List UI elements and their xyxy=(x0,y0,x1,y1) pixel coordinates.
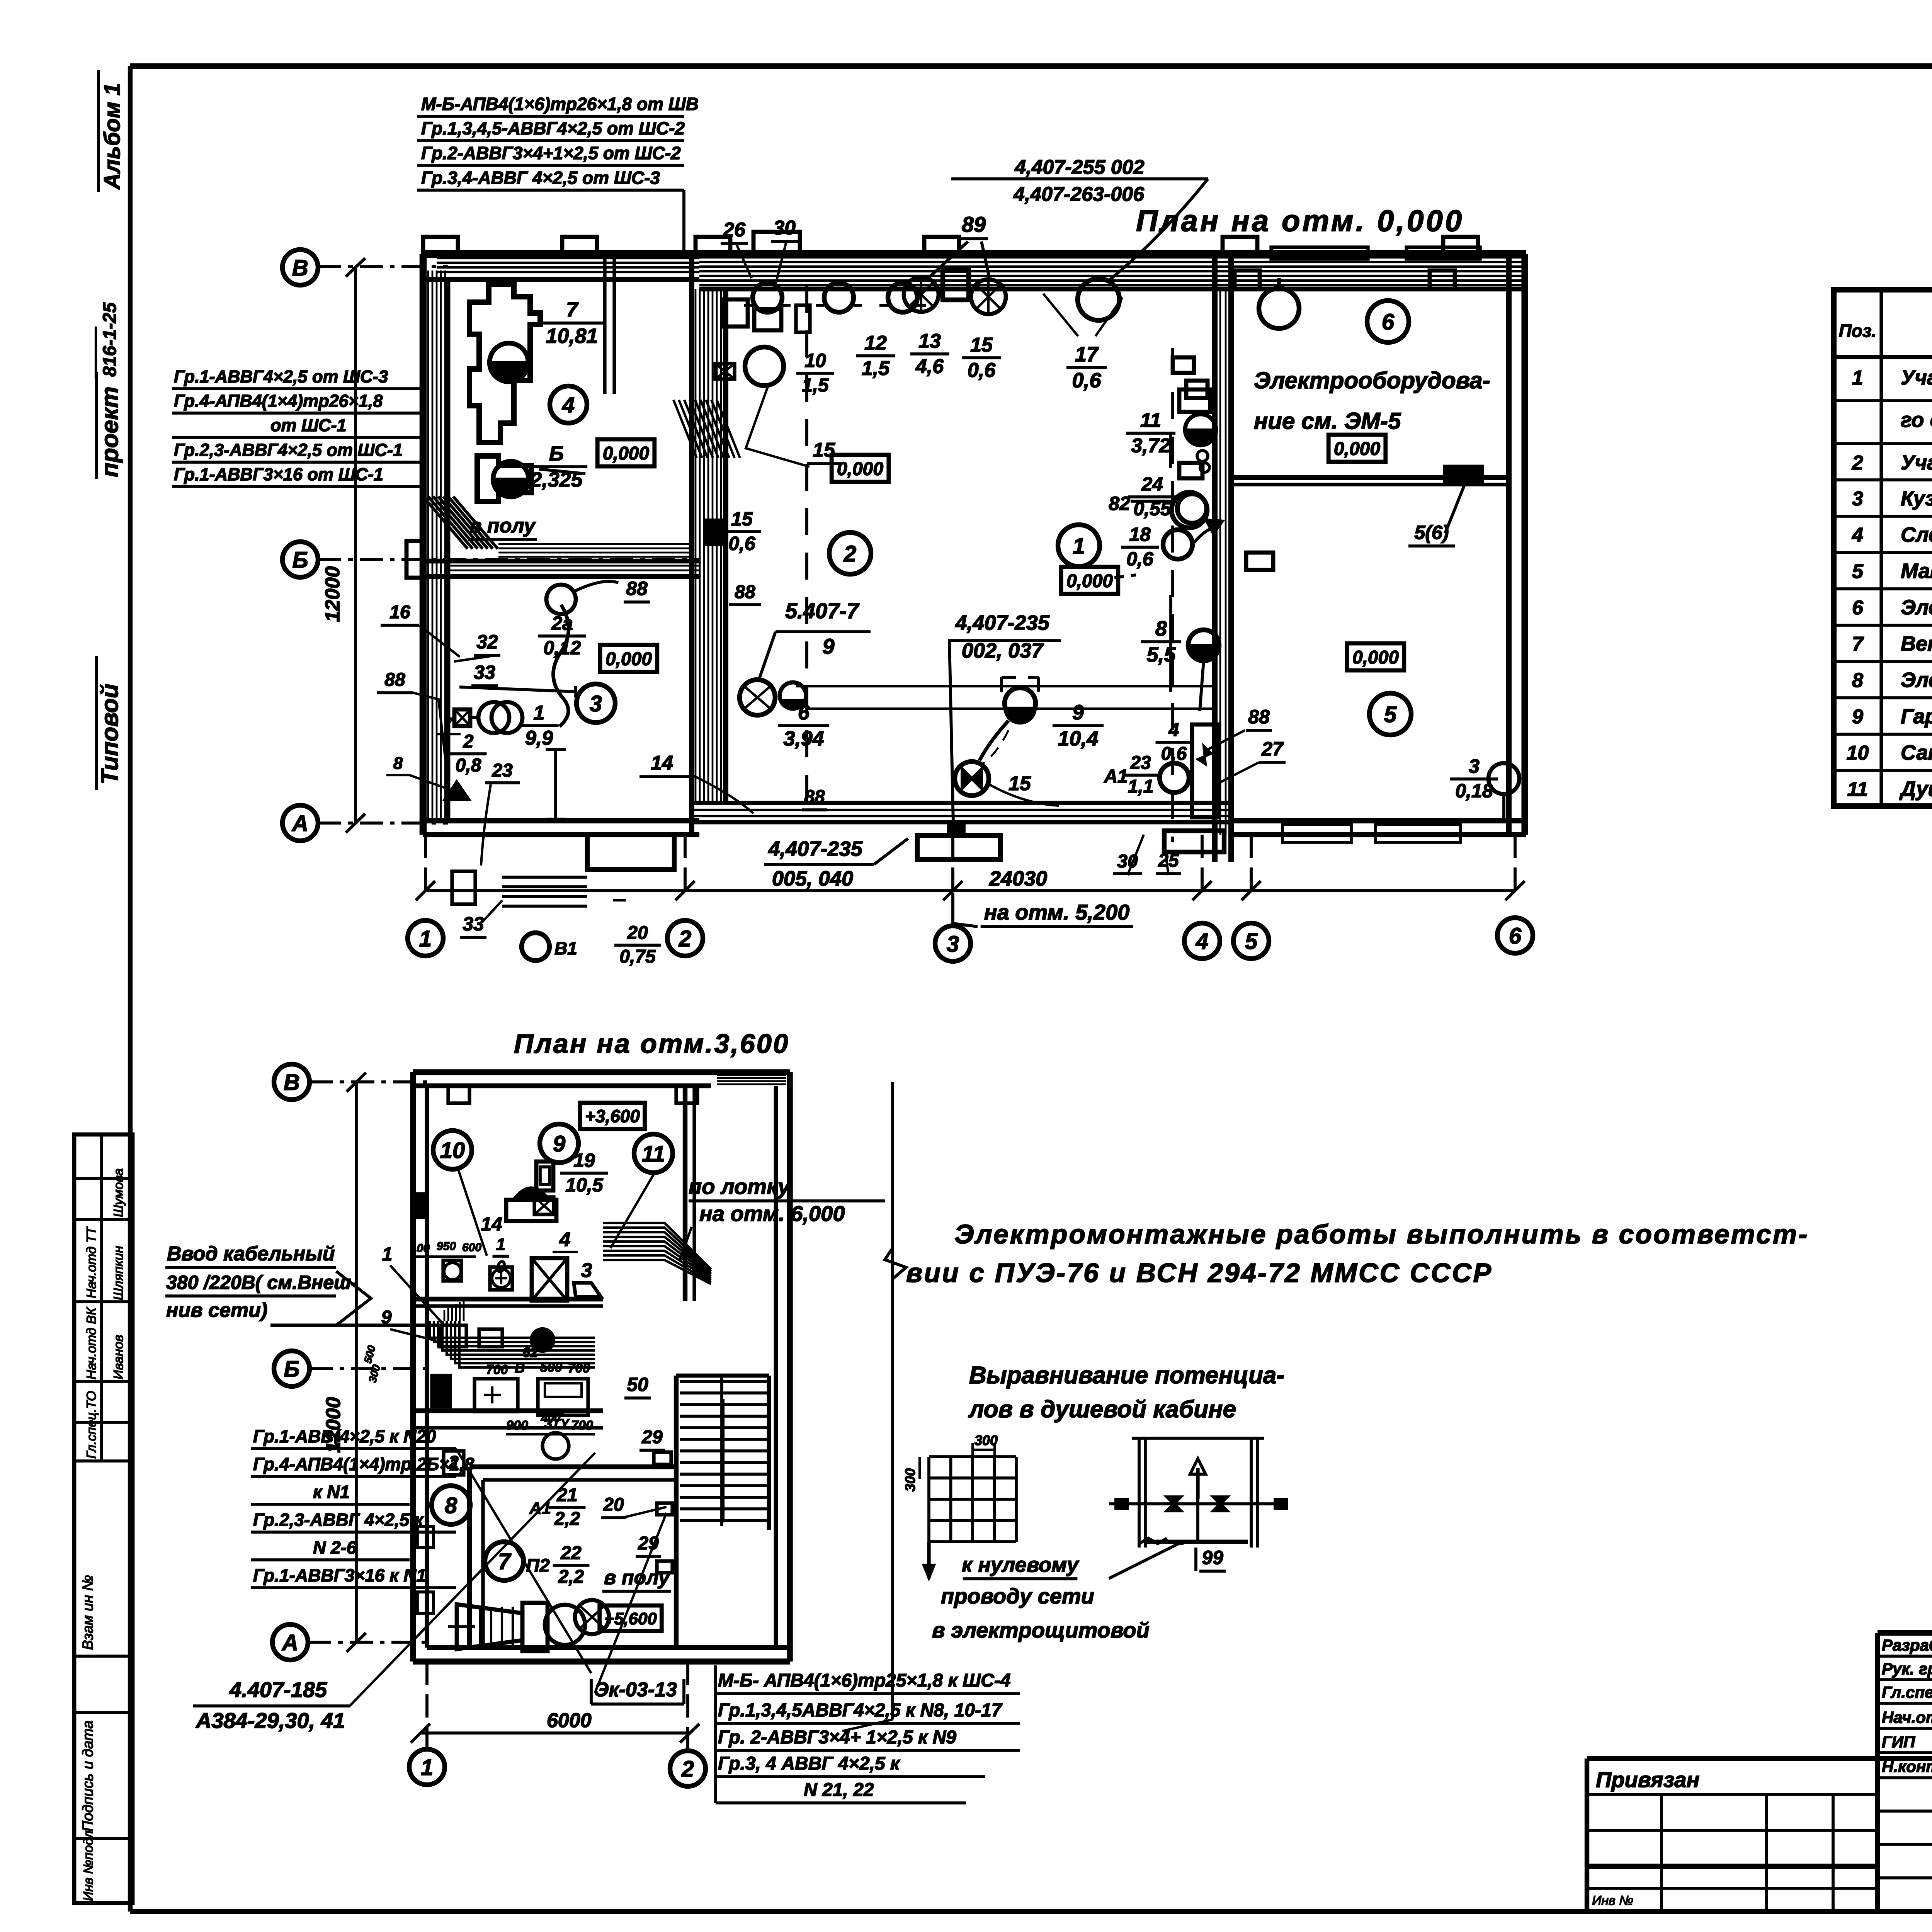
elevation box room 6 xyxy=(1328,435,1386,462)
svg-text:500: 500 xyxy=(362,1344,378,1365)
svg-text:10: 10 xyxy=(804,350,826,371)
svg-text:7: 7 xyxy=(566,298,579,321)
svg-text:3: 3 xyxy=(590,691,602,716)
svg-text:3: 3 xyxy=(947,932,959,957)
left wall pilaster at Б xyxy=(406,541,423,578)
svg-text:6: 6 xyxy=(1852,597,1864,619)
svg-text:18: 18 xyxy=(1129,524,1151,545)
svg-text:62: 62 xyxy=(522,1344,538,1360)
bottom wall main plan xyxy=(423,818,699,823)
svg-text:24: 24 xyxy=(1141,473,1163,495)
elevation +5,600 xyxy=(600,1605,662,1631)
svg-text:ГИП: ГИП xyxy=(1882,1733,1915,1751)
partition wall rooms 4/3 xyxy=(423,559,699,563)
mesh ground lead arrow xyxy=(927,1542,930,1578)
svg-text:1: 1 xyxy=(419,926,432,951)
room number 4 xyxy=(550,386,587,423)
svg-text:20: 20 xyxy=(603,1495,624,1515)
svg-text:0,000: 0,000 xyxy=(603,443,649,464)
plan2 room circles xyxy=(433,1131,472,1169)
svg-text:Привязан: Привязан xyxy=(1596,1767,1699,1792)
axis circle 4 xyxy=(1184,923,1220,959)
plan2 wall pilasters xyxy=(448,1086,469,1103)
svg-text:4: 4 xyxy=(1168,720,1179,740)
svg-text:8: 8 xyxy=(1155,617,1167,640)
svg-text:N 21, 22: N 21, 22 xyxy=(804,1780,874,1800)
svg-text:6: 6 xyxy=(1509,923,1522,949)
small rects on wall xyxy=(1235,270,1260,289)
svg-text:0,000: 0,000 xyxy=(605,649,652,669)
svg-text:29: 29 xyxy=(641,1427,663,1447)
bottom center: black semicircle fixture xyxy=(955,762,989,796)
column fixtures axis 4/5 xyxy=(1173,357,1194,373)
svg-text:Ввод кабельный: Ввод кабельный xyxy=(167,1243,335,1265)
axis circle 6 xyxy=(1497,918,1533,953)
room number 3 xyxy=(577,684,615,723)
elevation box room 1 xyxy=(1061,567,1118,594)
svg-text:В1: В1 xyxy=(554,938,577,958)
svg-text:15: 15 xyxy=(970,334,993,356)
svg-text:Гр.2,3-АВВГ 4×2,5 к: Гр.2,3-АВВГ 4×2,5 к xyxy=(253,1510,424,1530)
svg-text:4: 4 xyxy=(559,1228,571,1251)
svg-text:Выравнивание потенциа-: Выравнивание потенциа- xyxy=(969,1362,1284,1389)
equalization mesh grid xyxy=(927,1457,930,1542)
svg-text:В: В xyxy=(515,1360,525,1376)
plan2 stair well xyxy=(767,1376,771,1530)
svg-text:17: 17 xyxy=(1075,343,1099,366)
svg-text:27: 27 xyxy=(1261,738,1284,760)
svg-text:на отм. 5,200: на отм. 5,200 xyxy=(984,900,1129,924)
main plan: axis circle А xyxy=(282,805,318,841)
leader from spec block to plan2 xyxy=(456,1449,591,1673)
svg-text:2: 2 xyxy=(679,926,691,951)
room number 1 xyxy=(1058,525,1100,566)
svg-text:Поз.: Поз. xyxy=(1839,321,1876,341)
svg-text:Инв №: Инв № xyxy=(1592,1893,1633,1908)
svg-text:22: 22 xyxy=(560,1543,582,1563)
svg-text:3,72: 3,72 xyxy=(1131,434,1170,457)
partition in room 4 xyxy=(603,254,606,394)
svg-text:Гр.4-АПВ4(1×4)тр26×1,8: Гр.4-АПВ4(1×4)тр26×1,8 xyxy=(174,391,383,411)
cable tray line right of plan2 xyxy=(891,1082,894,1719)
room number 2 xyxy=(829,532,871,574)
svg-text:1: 1 xyxy=(1073,534,1085,559)
left wall door hatch (cable riser) xyxy=(423,497,468,549)
svg-text:Разраб: Разраб xyxy=(1882,1636,1932,1654)
cabin bottom strap xyxy=(1145,1540,1248,1544)
svg-text:М-Б-АПВ4(1×6)тр26×1,8 от ШВ: М-Б-АПВ4(1×6)тр26×1,8 от ШВ xyxy=(421,94,699,114)
svg-text:0,000: 0,000 xyxy=(1066,571,1113,591)
svg-text:14: 14 xyxy=(651,752,673,774)
svg-text:Гр.2,3-АВВГ4×2,5 от ШС-1: Гр.2,3-АВВГ4×2,5 от ШС-1 xyxy=(174,440,403,460)
svg-text:0,6: 0,6 xyxy=(728,533,756,554)
leader to lamp xyxy=(1108,179,1208,281)
svg-text:002, 037: 002, 037 xyxy=(962,639,1044,662)
svg-text:го обслуживания тракторов: го обслуживания тракторов xyxy=(1901,408,1932,432)
svg-text:6: 6 xyxy=(1382,310,1395,335)
svg-text:Шумова: Шумова xyxy=(111,1168,126,1217)
svg-text:9: 9 xyxy=(822,634,834,658)
plan2 fan unit xyxy=(457,1604,522,1649)
svg-text:7: 7 xyxy=(1852,633,1864,655)
svg-text:50: 50 xyxy=(627,1374,648,1395)
lamps mid hall with long wires xyxy=(740,680,775,715)
svg-text:82: 82 xyxy=(1109,493,1130,514)
svg-text:Участок текущего ремонта сельх: Участок текущего ремонта сельхозмашин xyxy=(1901,451,1932,474)
elevation box room 3 xyxy=(600,645,657,672)
svg-text:4,6: 4,6 xyxy=(915,355,944,378)
svg-text:2,2: 2,2 xyxy=(558,1567,584,1587)
svg-text:88: 88 xyxy=(735,582,755,602)
svg-text:Гл.спек: Гл.спек xyxy=(1882,1683,1932,1701)
svg-text:3: 3 xyxy=(1469,755,1480,777)
svg-text:1,5: 1,5 xyxy=(802,374,829,396)
svg-text:10: 10 xyxy=(1847,742,1869,764)
svg-text:Б: Б xyxy=(284,1357,299,1382)
svg-text:0,6: 0,6 xyxy=(1126,548,1154,570)
svg-text:10,81: 10,81 xyxy=(546,324,598,347)
axis В dash-dot line xyxy=(318,265,448,268)
svg-text:19: 19 xyxy=(573,1150,595,1171)
svg-text:100: 100 xyxy=(410,1242,430,1255)
svg-text:+3,600: +3,600 xyxy=(585,1106,640,1126)
svg-text:к нулевому: к нулевому xyxy=(962,1553,1080,1577)
svg-text:0,000: 0,000 xyxy=(1334,439,1380,459)
svg-text:900: 900 xyxy=(506,1418,528,1433)
explication table grid xyxy=(1834,290,1932,806)
porches below bottom wall xyxy=(587,835,674,869)
svg-text:4: 4 xyxy=(562,393,575,418)
svg-text:380 /220В( см.Внеш-: 380 /220В( см.Внеш- xyxy=(166,1272,357,1293)
bottom dimension line xyxy=(425,889,1515,892)
svg-text:А: А xyxy=(291,811,308,836)
svg-text:8: 8 xyxy=(1852,669,1863,692)
svg-text:20: 20 xyxy=(627,923,648,943)
lamp circles along top wall xyxy=(753,283,782,312)
plan2 washbasin xyxy=(443,1260,461,1281)
svg-text:1: 1 xyxy=(1852,367,1863,389)
svg-text:Гр.1,3,4,5-АВВГ4×2,5 от ШС-2: Гр.1,3,4,5-АВВГ4×2,5 от ШС-2 xyxy=(421,118,685,138)
title block signature table xyxy=(1878,1630,1932,1636)
svg-text:5: 5 xyxy=(1852,560,1864,583)
svg-text:5.407-7: 5.407-7 xyxy=(785,599,860,623)
svg-text:Нач.от.: Нач.от. xyxy=(1882,1708,1932,1726)
svg-text:+5,600: +5,600 xyxy=(604,1609,657,1628)
heater box room 6 xyxy=(1445,467,1482,482)
svg-text:0,6: 0,6 xyxy=(1072,369,1101,392)
svg-text:Гр.1-АВВГ3×16 от ШС-1: Гр.1-АВВГ3×16 от ШС-1 xyxy=(174,464,383,484)
svg-text:9: 9 xyxy=(553,1131,565,1156)
svg-text:15: 15 xyxy=(731,508,753,530)
main plan: axis circle В xyxy=(282,250,318,285)
svg-text:N 2-6: N 2-6 xyxy=(313,1537,357,1558)
B1 20/0,75 leader xyxy=(613,899,626,901)
svg-text:А: А xyxy=(281,1630,298,1655)
svg-text:88: 88 xyxy=(626,578,648,599)
svg-text:88: 88 xyxy=(804,787,825,807)
svg-text:4,407-235: 4,407-235 xyxy=(955,611,1049,634)
plan2 black blob fixtures xyxy=(531,1328,554,1352)
svg-text:в электрощитовой: в электрощитовой xyxy=(932,1618,1150,1642)
axis circle 3 xyxy=(935,926,971,961)
svg-text:проект: проект xyxy=(97,386,123,477)
svg-text:на отм. 6,000: на отм. 6,000 xyxy=(699,1201,845,1226)
svg-text:300: 300 xyxy=(902,1468,918,1492)
svg-text:3: 3 xyxy=(1852,488,1863,510)
svg-text:950: 950 xyxy=(437,1240,456,1253)
svg-text:2: 2 xyxy=(463,731,474,752)
svg-text:4.407-185: 4.407-185 xyxy=(229,1677,327,1702)
svg-text:9,9: 9,9 xyxy=(525,727,553,749)
svg-text:1: 1 xyxy=(382,1244,393,1265)
svg-text:вии с ПУЭ-76 и ВСН 294-72: вии с ПУЭ-76 и ВСН 294-72 ММСС СССР xyxy=(906,1258,1493,1288)
svg-text:Электродная котельная: Электродная котельная xyxy=(1901,596,1932,619)
svg-text:лов в душевой кабине: лов в душевой кабине xyxy=(968,1396,1236,1423)
svg-text:9: 9 xyxy=(1072,701,1084,724)
svg-text:11: 11 xyxy=(1140,409,1161,432)
svg-text:13: 13 xyxy=(918,330,941,352)
svg-text:Рук. гр.: Рук. гр. xyxy=(1882,1660,1932,1678)
svg-text:к N1: к N1 xyxy=(313,1482,350,1502)
plan2 bottom-left small marks xyxy=(417,1526,434,1548)
svg-text:М-Б- АПВ4(1×6)тр25×1,8 к ШС-4: М-Б- АПВ4(1×6)тр25×1,8 к ШС-4 xyxy=(718,1670,1011,1691)
svg-text:0,000: 0,000 xyxy=(837,459,883,479)
svg-text:10: 10 xyxy=(440,1138,465,1163)
top wall pilasters xyxy=(423,237,458,254)
bottom wall window room 5 xyxy=(1282,825,1351,842)
partition wall rooms 6/5 xyxy=(1231,475,1509,480)
svg-text:23: 23 xyxy=(492,760,513,781)
plan2 boxes with + row xyxy=(474,1379,518,1412)
svg-text:1: 1 xyxy=(496,1235,505,1254)
machine tool room 4 xyxy=(469,284,540,442)
svg-text:Электрооборудова-: Электрооборудова- xyxy=(1254,367,1490,393)
plan2 motor + xyxy=(490,1267,512,1290)
plan2 dense cable knot room 8 xyxy=(430,1321,595,1338)
cabin up arrow xyxy=(1196,1468,1199,1499)
svg-text:от ШС-1: от ШС-1 xyxy=(270,415,347,435)
svg-text:5(6): 5(6) xyxy=(1415,522,1449,543)
svg-text:Эк-03-13: Эк-03-13 xyxy=(594,1679,677,1701)
svg-text:24030: 24030 xyxy=(989,867,1047,890)
elevation box room 4 xyxy=(597,439,655,466)
room number 6 xyxy=(1367,301,1409,342)
svg-text:Гл.спец.ТО: Гл.спец.ТО xyxy=(84,1391,99,1459)
svg-text:Гр.1-АВВГ3×16 к N1: Гр.1-АВВГ3×16 к N1 xyxy=(253,1565,426,1585)
plan2 axis circle 1 xyxy=(409,1749,445,1785)
svg-text:11: 11 xyxy=(642,1141,665,1167)
svg-text:4: 4 xyxy=(1196,929,1208,954)
shower cabin sketch xyxy=(1132,1437,1264,1440)
leader from spec block to plan wall xyxy=(682,190,685,254)
svg-text:1,1: 1,1 xyxy=(1128,777,1154,797)
svg-text:33: 33 xyxy=(474,662,495,683)
svg-text:План на отм.3,600: План на отм.3,600 xyxy=(514,1029,790,1059)
svg-text:29: 29 xyxy=(638,1533,659,1554)
svg-text:0,6: 0,6 xyxy=(968,359,996,381)
plan2 big cable bundle diagonal to tray xyxy=(603,1223,711,1269)
svg-text:700: 700 xyxy=(568,1361,590,1376)
svg-text:700: 700 xyxy=(571,1418,593,1433)
svg-text:88: 88 xyxy=(384,670,405,690)
svg-text:1,5: 1,5 xyxy=(862,357,890,379)
machine tool room 4 lower xyxy=(477,456,531,502)
svg-text:14: 14 xyxy=(481,1213,502,1235)
lamp В1 at porch xyxy=(522,933,549,961)
svg-text:23: 23 xyxy=(1130,753,1151,773)
svg-text:В: В xyxy=(292,255,308,281)
svg-text:Б: Б xyxy=(292,548,308,573)
svg-text:816-1-25: 816-1-25 xyxy=(100,302,120,377)
svg-text:8: 8 xyxy=(445,1493,457,1518)
svg-text:7: 7 xyxy=(444,715,453,732)
svg-text:Типовой: Типовой xyxy=(97,684,123,784)
svg-text:Венткамера на отм. 3,600: Венткамера на отм. 3,600 xyxy=(1901,632,1932,655)
svg-text:33: 33 xyxy=(463,913,484,935)
plan2 bottom dimension line xyxy=(420,1731,690,1735)
svg-text:Электрощитовая: Электрощитовая xyxy=(1901,668,1932,692)
plan2 axis circle Б xyxy=(274,1351,310,1386)
svg-text:5: 5 xyxy=(1384,702,1397,727)
plan2 axis circle А xyxy=(272,1624,308,1660)
cabin pipe with valves xyxy=(1109,1502,1287,1505)
svg-text:проводу сети: проводу сети xyxy=(941,1584,1094,1608)
svg-text:Гр.1-АВВ(4×2,5 к N20: Гр.1-АВВ(4×2,5 к N20 xyxy=(253,1426,436,1446)
plan2 stair arrow xyxy=(722,1399,724,1522)
svg-text:4: 4 xyxy=(1852,524,1863,546)
svg-text:нив сети): нив сети) xyxy=(166,1299,267,1321)
svg-text:Гардеробная: Гардеробная xyxy=(1901,705,1932,728)
svg-text:005, 040: 005, 040 xyxy=(772,867,853,890)
plan2 room9 pedestal fixture xyxy=(506,1200,556,1221)
black triangle door mark xyxy=(444,781,469,800)
left margin stamp table xyxy=(74,1134,133,1903)
svg-text:Гр.3,4-АВВГ 4×2,5 от ШС-3: Гр.3,4-АВВГ 4×2,5 от ШС-3 xyxy=(421,168,660,188)
svg-text:12000: 12000 xyxy=(321,566,344,622)
elevation box room 5 xyxy=(1347,643,1404,670)
axis circle 1 xyxy=(408,920,443,956)
svg-text:Взам ин №: Взам ин № xyxy=(80,1575,96,1650)
svg-text:Гр.2-АВВГ3×4+1×2,5 от ШС-2: Гр.2-АВВГ3×4+1×2,5 от ШС-2 xyxy=(421,143,681,163)
svg-text:12: 12 xyxy=(864,332,887,354)
distribution boxes hall top-left xyxy=(723,299,748,327)
black lamp xyxy=(1185,414,1216,445)
svg-text:10,5: 10,5 xyxy=(565,1174,604,1196)
svg-text:Инв №подл: Инв №подл xyxy=(81,1830,96,1901)
plan2 vertical dimension 12000 xyxy=(355,1082,358,1642)
top wall window openings room 6 xyxy=(1271,247,1368,259)
leader room 11 xyxy=(611,1172,655,1248)
svg-text:2,2: 2,2 xyxy=(554,1509,580,1529)
plan2 wall room11/right xyxy=(683,1086,687,1301)
svg-text:3: 3 xyxy=(581,1259,592,1282)
elevation box hall xyxy=(832,455,889,482)
plan2 outer walls xyxy=(413,1069,790,1075)
hall right wall (axis 4) xyxy=(1212,254,1218,862)
elevation +3,600 xyxy=(580,1103,645,1129)
svg-text:32: 32 xyxy=(476,631,498,653)
svg-text:0,75: 0,75 xyxy=(619,947,656,967)
svg-text:1: 1 xyxy=(421,1755,433,1780)
lamp circle on leader 4,407-255 xyxy=(1078,279,1119,320)
room number 5 xyxy=(1369,693,1411,735)
plan2 horizontal wall row 2 xyxy=(413,1408,603,1413)
svg-text:99: 99 xyxy=(1202,1547,1223,1568)
main plan: axis circle Б xyxy=(282,542,318,577)
svg-text:в полу: в полу xyxy=(469,515,536,537)
vertical dimension 12000 xyxy=(354,267,357,823)
svg-text:88: 88 xyxy=(1248,706,1270,728)
svg-text:1: 1 xyxy=(534,702,545,724)
svg-text:300: 300 xyxy=(366,1363,383,1384)
svg-text:600: 600 xyxy=(462,1241,481,1254)
hall left wall (axis 2) xyxy=(689,254,694,835)
svg-text:Участок диагностики и техни: Участок диагностики и техническо- xyxy=(1901,366,1932,389)
leader room 10 xyxy=(458,1168,487,1256)
svg-text:Нач.отд ТТ: Нач.отд ТТ xyxy=(84,1226,99,1298)
axis circle 2 xyxy=(667,920,703,956)
svg-text:Гр.1,3,4,5АВВГ4×2,5 к N8, 10-1: Гр.1,3,4,5АВВГ4×2,5 к N8, 10-17 xyxy=(718,1700,1003,1721)
plan2 room 7 walls xyxy=(467,1467,472,1648)
svg-text:Гр.4-АПВ4(1×4)тр.2Б×1,8: Гр.4-АПВ4(1×4)тр.2Б×1,8 xyxy=(253,1454,474,1474)
title block main section line xyxy=(1587,1756,1932,1761)
plan2 top-right vent grate xyxy=(717,1074,786,1076)
cable bundle along Б axis into hall wall xyxy=(498,543,693,545)
svg-text:Материально-технический склад: Материально-технический склад xyxy=(1901,560,1932,583)
right block right wall (axis 6) xyxy=(1506,254,1512,835)
plan2 X-box ventilation unit xyxy=(532,1258,567,1301)
crane axis dashed lines in hall xyxy=(805,286,808,811)
svg-text:4,407-235: 4,407-235 xyxy=(768,837,862,861)
svg-text:4,407-255 002: 4,407-255 002 xyxy=(1014,156,1144,179)
svg-text:6000: 6000 xyxy=(547,1709,592,1732)
svg-text:Гр.3, 4 АВВГ 4×2,5 к: Гр.3, 4 АВВГ 4×2,5 к xyxy=(718,1753,901,1774)
svg-text:7: 7 xyxy=(498,1549,512,1574)
svg-text:6: 6 xyxy=(798,701,810,724)
svg-text:10,4: 10,4 xyxy=(1058,727,1098,750)
svg-text:Шляпкин: Шляпкин xyxy=(111,1246,126,1300)
axis circle 5 xyxy=(1233,923,1269,959)
top wall cable bundle xyxy=(437,257,699,259)
svg-text:Б: Б xyxy=(549,442,564,465)
svg-text:700: 700 xyxy=(486,1362,508,1377)
svg-text:15: 15 xyxy=(1009,772,1031,795)
labels row center hall xyxy=(745,347,784,386)
svg-text:89: 89 xyxy=(962,212,986,236)
svg-text:11: 11 xyxy=(1847,778,1868,801)
svg-text:0,000: 0,000 xyxy=(1352,647,1399,668)
svg-text:0,8: 0,8 xyxy=(456,755,481,776)
main plan left wall xyxy=(420,254,427,835)
svg-text:4,407-263-006: 4,407-263-006 xyxy=(1013,183,1145,206)
lamp circle room 6 top xyxy=(1259,288,1299,328)
svg-text:Санузел: Санузел xyxy=(1901,741,1932,764)
svg-text:3,94: 3,94 xyxy=(783,727,824,750)
plan2 label 2 box xyxy=(444,1451,464,1475)
svg-text:Слесарно-механический участок: Слесарно-механический участок xyxy=(1901,523,1932,546)
svg-text:по лотку: по лотку xyxy=(689,1174,791,1199)
svg-text:500: 500 xyxy=(540,1360,562,1375)
svg-text:9: 9 xyxy=(1852,706,1863,728)
svg-text:2: 2 xyxy=(1852,452,1863,474)
svg-text:Кузнечно-сварочный участок: Кузнечно-сварочный участок xyxy=(1901,487,1932,510)
svg-text:30: 30 xyxy=(773,217,796,239)
main plan outer top wall xyxy=(423,250,1526,258)
svg-text:Нач.отд ВК: Нач.отд ВК xyxy=(84,1307,99,1379)
svg-text:Душевая: Душевая xyxy=(1899,777,1932,801)
svg-text:16: 16 xyxy=(389,602,410,622)
svg-text:А384-29,30, 41: А384-29,30, 41 xyxy=(195,1708,345,1733)
